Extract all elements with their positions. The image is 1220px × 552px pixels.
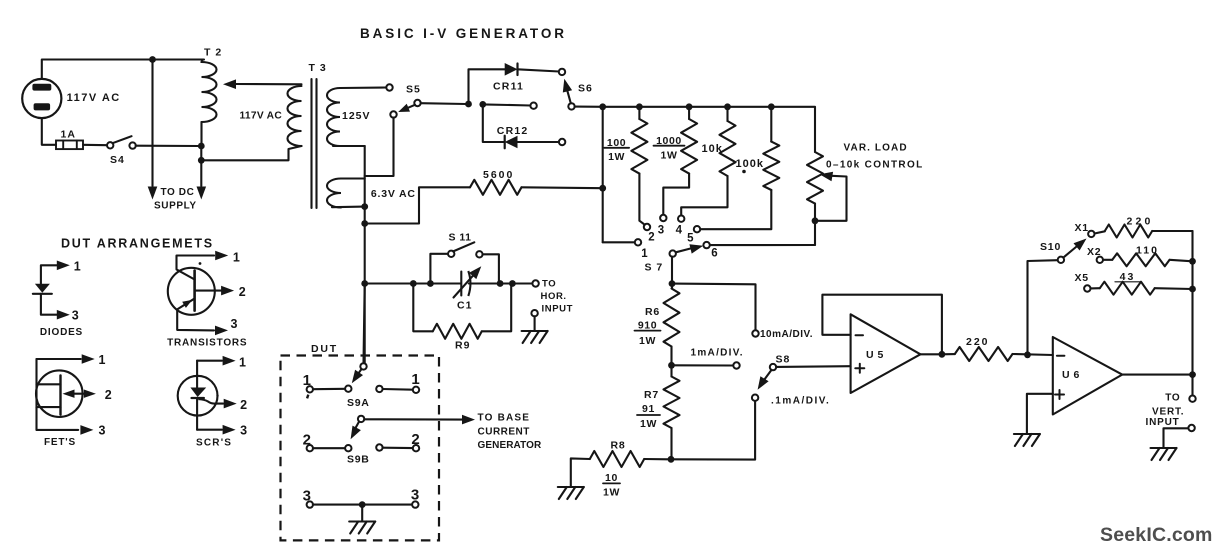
label 1 (S9A right) bbox=[411, 371, 419, 388]
label 3 (scrs) bbox=[240, 424, 247, 438]
label DUT ARRANGEMETS bbox=[61, 237, 214, 251]
svg-text:3: 3 bbox=[240, 424, 247, 438]
label 1mA/DIV. bbox=[691, 348, 744, 359]
wire S5 B to CR node bbox=[421, 102, 466, 105]
node U6 output bbox=[1189, 371, 1196, 378]
label 2 (transistors) bbox=[239, 285, 246, 299]
label 220 (X1) bbox=[1126, 216, 1153, 228]
svg-text:CR12: CR12 bbox=[497, 125, 529, 137]
svg-text:6: 6 bbox=[711, 248, 717, 260]
label TO DC bbox=[161, 187, 195, 198]
label VERT. bbox=[1152, 407, 1184, 418]
node 5600 branch bbox=[361, 220, 368, 227]
label 2 (fets) bbox=[105, 388, 112, 402]
svg-text:S9A: S9A bbox=[347, 397, 370, 409]
svg-text:3: 3 bbox=[72, 309, 79, 323]
wire stub to open terminal bbox=[483, 104, 531, 105]
resistor R8 bbox=[590, 451, 668, 467]
svg-text:R6: R6 bbox=[645, 306, 660, 318]
svg-text:1W: 1W bbox=[661, 150, 678, 162]
ground hor input bbox=[522, 331, 548, 343]
label S6 bbox=[578, 83, 593, 95]
node 1mA tap bbox=[668, 362, 675, 369]
node T2 bottom a bbox=[198, 143, 205, 150]
svg-text:S9B: S9B bbox=[347, 454, 370, 466]
svg-text:GENERATOR: GENERATOR bbox=[478, 440, 543, 451]
svg-text:S 7: S 7 bbox=[645, 262, 664, 274]
S7 contact 3 bbox=[660, 215, 666, 221]
svg-text:91: 91 bbox=[642, 403, 655, 415]
label R6 bbox=[645, 306, 660, 318]
wire top bus bbox=[603, 107, 815, 152]
ground DUT bbox=[349, 522, 375, 534]
resistor 43 (X5) bbox=[1091, 282, 1193, 295]
svg-text:2: 2 bbox=[648, 232, 654, 244]
svg-text:2: 2 bbox=[303, 432, 311, 449]
label 3 (fets) bbox=[99, 424, 106, 438]
label R7 bbox=[644, 389, 659, 401]
wire C1 row right bbox=[469, 282, 533, 284]
node CR branch b bbox=[479, 101, 486, 108]
svg-text:1W: 1W bbox=[608, 151, 625, 163]
svg-text:INPUT: INPUT bbox=[1146, 417, 1180, 428]
pot wiper arrow bbox=[815, 172, 847, 221]
fuse F1 1A bbox=[56, 141, 107, 150]
terminal .1mA/DIV bbox=[752, 395, 758, 401]
svg-text:R9: R9 bbox=[455, 340, 470, 352]
svg-text:1A: 1A bbox=[61, 129, 76, 141]
stray tick row1 bbox=[306, 394, 310, 399]
wire C1 row left bbox=[365, 282, 461, 284]
label 2 (S9B right) bbox=[411, 431, 419, 448]
ground U6 bbox=[1014, 434, 1040, 446]
svg-text:S5: S5 bbox=[406, 84, 421, 96]
switch S5 blade arrow bbox=[398, 104, 415, 112]
label VAR. LOAD bbox=[844, 143, 908, 154]
label .1mA/DIV. bbox=[771, 396, 830, 407]
wire row3 ground bbox=[361, 505, 363, 521]
label X1 bbox=[1075, 222, 1089, 234]
svg-text:S 11: S 11 bbox=[449, 232, 472, 244]
label 3 (row3 left) bbox=[303, 488, 311, 505]
node S7 common bbox=[669, 280, 676, 287]
svg-text:0–10k CONTROL: 0–10k CONTROL bbox=[826, 160, 924, 171]
label S5 bbox=[406, 84, 421, 96]
label 5600 bbox=[483, 169, 514, 181]
svg-text:TO DC: TO DC bbox=[161, 187, 195, 198]
svg-text:4: 4 bbox=[676, 225, 683, 237]
DUT row3 contact L3 bbox=[307, 501, 313, 507]
svg-text:.1mA/DIV.: .1mA/DIV. bbox=[771, 396, 830, 407]
label X2 bbox=[1087, 246, 1101, 258]
wire 5600 to bank node bbox=[522, 186, 603, 189]
label 100/1W bbox=[604, 137, 629, 163]
terminal hor ground bbox=[531, 310, 537, 316]
node U5 output bbox=[939, 351, 946, 358]
wire up to CR11 bbox=[469, 69, 505, 104]
label S11 bbox=[449, 232, 472, 244]
label 3 (S7) bbox=[658, 225, 664, 237]
svg-text:1W: 1W bbox=[639, 335, 656, 347]
label 1 (diodes) bbox=[74, 260, 81, 274]
wire R7 bottom bbox=[670, 428, 672, 459]
arrow to base current generator bbox=[462, 415, 475, 425]
node R9 left bbox=[410, 280, 417, 287]
svg-text:X1: X1 bbox=[1075, 222, 1089, 234]
wire to resistor 5600 bbox=[365, 187, 470, 223]
wire plug bottom to fuse bbox=[42, 118, 56, 145]
wire R8 to ground bbox=[571, 458, 590, 487]
svg-text:INPUT: INPUT bbox=[542, 304, 574, 315]
diode CR11 bbox=[505, 63, 559, 76]
label DIODES bbox=[40, 327, 83, 338]
label S7 bbox=[645, 262, 664, 274]
watermark SeekIC.com bbox=[1100, 524, 1213, 546]
svg-text:1mA/DIV.: 1mA/DIV. bbox=[691, 348, 744, 359]
node bus 2 bbox=[636, 103, 643, 110]
label 1 (fets) bbox=[99, 353, 106, 367]
resistor 220 (X1) bbox=[1095, 225, 1193, 238]
svg-text:X5: X5 bbox=[1075, 272, 1089, 284]
label 910/1W bbox=[635, 320, 661, 348]
node X2 out bbox=[1189, 258, 1196, 265]
label TRANSISTORS bbox=[167, 338, 247, 349]
label S9B bbox=[347, 454, 370, 466]
svg-text:110: 110 bbox=[1136, 245, 1159, 257]
T3 secondary 125V winding bbox=[327, 88, 386, 147]
S7 contact 4 bbox=[678, 216, 684, 222]
resistor 220 (U5-U6) bbox=[942, 347, 1053, 361]
node CR branch a bbox=[465, 101, 472, 108]
svg-text:BASIC I-V GENERATOR: BASIC I-V GENERATOR bbox=[360, 26, 567, 41]
label 3 (diodes) bbox=[72, 309, 79, 323]
svg-text:10: 10 bbox=[605, 472, 618, 484]
svg-text:U 5: U 5 bbox=[866, 349, 884, 361]
node pot bottom bbox=[812, 217, 819, 224]
label S8 bbox=[776, 354, 791, 366]
transistor symbol (DUT legend) bbox=[168, 251, 234, 336]
node S11 right bbox=[497, 280, 504, 287]
resistor R7 bbox=[664, 377, 680, 429]
wire to 1mA terminal bbox=[672, 364, 734, 366]
svg-text:2: 2 bbox=[411, 431, 419, 448]
svg-text:TRANSISTORS: TRANSISTORS bbox=[167, 338, 247, 349]
label 5 (S7) bbox=[687, 233, 694, 245]
label CR11 bbox=[493, 81, 524, 93]
node bus 5 bbox=[768, 103, 775, 110]
DUT row3 contact R3 bbox=[412, 501, 418, 507]
svg-text:FET'S: FET'S bbox=[44, 437, 76, 448]
wire to S9A pivot bbox=[364, 284, 365, 364]
label 6 (S7) bbox=[711, 248, 717, 260]
label 43 (X5) bbox=[1115, 271, 1140, 283]
S7 blade arrow bbox=[676, 244, 703, 253]
label 100k bbox=[736, 158, 764, 173]
label 220 bbox=[966, 336, 990, 348]
resistor 110 (X2) bbox=[1103, 253, 1193, 266]
label S10 bbox=[1040, 241, 1061, 253]
svg-text:U 6: U 6 bbox=[1062, 369, 1080, 381]
svg-text:S8: S8 bbox=[776, 354, 791, 366]
resistor 1000 1W bbox=[663, 107, 697, 215]
svg-text:1: 1 bbox=[303, 372, 311, 389]
svg-text:3: 3 bbox=[99, 424, 106, 438]
label CURRENT bbox=[478, 427, 530, 438]
wire vert ground bbox=[1164, 428, 1189, 448]
title BASIC I-V GENERATOR bbox=[360, 26, 567, 41]
label INPUT (hor) bbox=[542, 304, 574, 315]
wire X bus vertical bbox=[1191, 231, 1193, 375]
wire row3 bbox=[313, 504, 412, 506]
terminal vert input signal bbox=[1189, 396, 1195, 402]
svg-text:S4: S4 bbox=[110, 154, 125, 166]
terminal X1 bbox=[1088, 231, 1094, 237]
switch S10 wiper bbox=[1058, 257, 1064, 263]
svg-text:2: 2 bbox=[105, 388, 112, 402]
switch S4 bbox=[107, 136, 199, 149]
switch S6 bottom contact bbox=[568, 103, 574, 109]
node C1 row tap bbox=[361, 280, 368, 287]
svg-text:1: 1 bbox=[74, 260, 81, 274]
node R8 junction bbox=[668, 456, 675, 463]
terminal 10mA/DIV bbox=[752, 330, 758, 336]
wire pot to S7 contact 6 bbox=[710, 244, 815, 246]
scr symbol (DUT legend) bbox=[178, 356, 237, 435]
node U6 input junction bbox=[1024, 351, 1031, 358]
svg-text:1: 1 bbox=[411, 371, 419, 388]
label R9 bbox=[455, 340, 470, 352]
node T2 bottom b bbox=[198, 157, 205, 164]
label 2 (S7) bbox=[648, 232, 654, 244]
label T2 bbox=[204, 47, 222, 59]
wire down to DC supply arrow (left) bbox=[151, 60, 153, 187]
ground R8 bbox=[558, 487, 584, 499]
label 91/1W bbox=[637, 403, 660, 430]
node S11 left bbox=[427, 280, 434, 287]
svg-text:2: 2 bbox=[239, 285, 246, 299]
switch S5 wiper contact C bbox=[390, 111, 396, 117]
svg-text:2: 2 bbox=[240, 398, 247, 412]
label 117V AC (T3 primary) bbox=[240, 111, 283, 122]
svg-text:TO BASE: TO BASE bbox=[478, 413, 531, 424]
label 125V bbox=[342, 110, 371, 122]
label SCR'S bbox=[196, 438, 232, 449]
wire S5 wiper down to common bbox=[365, 118, 394, 176]
svg-text:3: 3 bbox=[658, 225, 664, 237]
transformer T2 variac winding bbox=[202, 60, 217, 147]
svg-text:117V AC: 117V AC bbox=[240, 111, 283, 122]
S9B wiper contact bbox=[345, 445, 351, 451]
resistor 100k bbox=[700, 107, 779, 229]
label GENERATOR bbox=[478, 440, 543, 451]
open terminal CR12 right bbox=[559, 139, 565, 145]
S8 blade arrow bbox=[758, 370, 772, 390]
svg-text:SUPPLY: SUPPLY bbox=[154, 201, 197, 212]
wire S9A L1 to wiper bbox=[313, 388, 345, 391]
wire to .1mA terminal bbox=[671, 401, 755, 460]
S9B right pair bbox=[376, 444, 419, 451]
wire T2 tap arrow bbox=[236, 83, 302, 85]
label 3 (transistors) bbox=[231, 317, 238, 331]
S9A wiper contact bbox=[345, 386, 351, 392]
label 1 (S7) bbox=[641, 248, 648, 260]
S7 contact 6 bbox=[703, 242, 709, 248]
wire plug top to T2 bbox=[42, 60, 204, 79]
S7 contact 1 bbox=[635, 239, 641, 245]
svg-text:DUT ARRANGEMETS: DUT ARRANGEMETS bbox=[61, 237, 214, 251]
svg-text:R8: R8 bbox=[611, 440, 626, 452]
wire to 10mA terminal bbox=[672, 284, 756, 331]
switch S9A pivot bbox=[360, 363, 366, 369]
S9A contact L1 bbox=[307, 386, 313, 392]
stray mark above transistor bbox=[199, 262, 202, 265]
T3 secondary 6.3V AC winding bbox=[327, 179, 365, 208]
resistor 100 1W bbox=[631, 107, 647, 225]
svg-text:117V AC: 117V AC bbox=[67, 92, 121, 104]
node junction top-left bbox=[149, 56, 156, 63]
svg-text:3: 3 bbox=[411, 487, 419, 504]
label 3 (row3 right) bbox=[411, 487, 419, 504]
wire to S7 contact 1 bbox=[603, 241, 635, 243]
svg-text:VAR. LOAD: VAR. LOAD bbox=[844, 143, 908, 154]
switch S6 top contact bbox=[559, 69, 565, 75]
DUT dashed box bbox=[281, 356, 440, 541]
plug P1 117V AC bbox=[22, 79, 61, 118]
label TO (hor) bbox=[542, 279, 556, 290]
wire feedback riser bbox=[1028, 260, 1058, 355]
wire down to DC supply arrow (right) bbox=[200, 146, 202, 186]
svg-text:DUT: DUT bbox=[311, 343, 338, 355]
diode symbol (DUT legend) bbox=[33, 261, 70, 320]
label 1 (scrs) bbox=[239, 356, 246, 370]
switch S8 wiper bbox=[770, 364, 776, 370]
S9A right pair bbox=[376, 386, 419, 393]
resistor 10k bbox=[681, 107, 735, 216]
switch S9B pivot bbox=[358, 416, 364, 422]
wire U6 output bbox=[1122, 374, 1192, 376]
svg-text:10mA/DIV.: 10mA/DIV. bbox=[760, 329, 813, 340]
label 2 (S9B left) bbox=[303, 432, 311, 449]
label C1 bbox=[457, 300, 472, 312]
switch S11 bbox=[430, 242, 499, 283]
S9A blade arrow bbox=[352, 369, 363, 383]
op-amp U5 bbox=[851, 314, 921, 393]
svg-text:3: 3 bbox=[231, 317, 238, 331]
label FET'S bbox=[44, 437, 76, 448]
T3 primary winding 117V AC bbox=[201, 86, 301, 160]
svg-text:S6: S6 bbox=[578, 83, 593, 95]
wire S9B L2 to wiper bbox=[313, 447, 345, 449]
label 110 (X2) bbox=[1136, 245, 1159, 257]
wire S9B to base gen bbox=[364, 418, 462, 420]
node R9 right bbox=[509, 280, 516, 287]
diode CR12 bbox=[505, 136, 559, 149]
svg-text:C1: C1 bbox=[457, 300, 472, 312]
wire U6 plus to ground bbox=[1027, 394, 1053, 434]
svg-text:DIODES: DIODES bbox=[40, 327, 83, 338]
svg-text:1: 1 bbox=[239, 356, 246, 370]
arrow to dc supply left bbox=[148, 187, 158, 200]
svg-text:SeekIC.com: SeekIC.com bbox=[1100, 524, 1213, 546]
svg-text:6.3V AC: 6.3V AC bbox=[371, 188, 416, 200]
terminal 1mA/DIV bbox=[733, 362, 739, 368]
wire S7 wiper down bbox=[671, 257, 673, 289]
terminal X2 bbox=[1097, 257, 1103, 263]
svg-text:220: 220 bbox=[1126, 216, 1153, 228]
node X5 out bbox=[1189, 286, 1196, 293]
node bus 3 bbox=[686, 103, 693, 110]
label S4 bbox=[110, 154, 125, 166]
label DUT bbox=[311, 343, 338, 355]
switch S6 blade arrow bbox=[563, 79, 572, 104]
switch S5 contact B bbox=[414, 100, 420, 106]
svg-text:HOR.: HOR. bbox=[541, 291, 567, 302]
resistor R6 bbox=[664, 289, 680, 347]
label 1 (transistors) bbox=[233, 251, 240, 265]
svg-text:SCR'S: SCR'S bbox=[196, 438, 232, 449]
svg-text:125V: 125V bbox=[342, 110, 371, 122]
svg-text:5600: 5600 bbox=[483, 169, 514, 181]
svg-text:VERT.: VERT. bbox=[1152, 407, 1184, 418]
node bus 4 bbox=[724, 103, 731, 110]
svg-text:CURRENT: CURRENT bbox=[478, 427, 530, 438]
svg-text:220: 220 bbox=[966, 336, 990, 348]
svg-text:5: 5 bbox=[687, 233, 694, 245]
S10 blade arrow bbox=[1064, 239, 1087, 258]
svg-text:S10: S10 bbox=[1040, 241, 1061, 253]
label 0-10k CONTROL bbox=[826, 160, 924, 171]
svg-text:1W: 1W bbox=[603, 487, 620, 499]
terminal X5 bbox=[1084, 285, 1090, 291]
label TO BASE bbox=[478, 413, 531, 424]
wire S8 to U5 plus bbox=[776, 365, 850, 368]
svg-text:TO: TO bbox=[542, 279, 556, 290]
S7 contact 2 bbox=[644, 224, 650, 230]
svg-text:1: 1 bbox=[233, 251, 240, 265]
label 10mA/DIV. bbox=[760, 329, 813, 340]
arrow to dc supply right bbox=[197, 187, 207, 200]
terminal vert input ground bbox=[1188, 425, 1194, 431]
S7 contact 5 bbox=[694, 226, 700, 232]
wire down to CR12 bbox=[483, 104, 505, 142]
label 1 (S9A left) bbox=[303, 372, 311, 389]
svg-text:T 2: T 2 bbox=[204, 47, 222, 59]
label T3 bbox=[309, 62, 327, 74]
label X5 bbox=[1075, 272, 1089, 284]
T3 core bars bbox=[312, 79, 317, 208]
resistor 5600 bbox=[470, 180, 522, 195]
svg-text:1W: 1W bbox=[640, 418, 657, 430]
label S9A bbox=[347, 397, 370, 409]
svg-text:1: 1 bbox=[99, 353, 106, 367]
svg-text:1: 1 bbox=[641, 248, 648, 260]
svg-text:TO: TO bbox=[1165, 393, 1180, 404]
wire hor ground bbox=[534, 316, 536, 331]
wire main vertical from 125V bottom bbox=[364, 146, 366, 363]
wire left bank vertical bbox=[602, 107, 604, 243]
wire U5 feedback loop bbox=[822, 295, 942, 355]
node 6.3 return bbox=[361, 203, 368, 210]
node row3 ground tap bbox=[359, 501, 366, 508]
svg-text:3: 3 bbox=[303, 488, 311, 505]
node 5600 junction bbox=[599, 185, 606, 192]
node bus 1 bbox=[599, 103, 606, 110]
svg-text:X2: X2 bbox=[1087, 246, 1101, 258]
terminal to hor input bbox=[532, 280, 538, 286]
label CR12 bbox=[497, 125, 529, 137]
svg-text:T 3: T 3 bbox=[309, 62, 327, 74]
switch S5 contact A bbox=[386, 84, 392, 90]
